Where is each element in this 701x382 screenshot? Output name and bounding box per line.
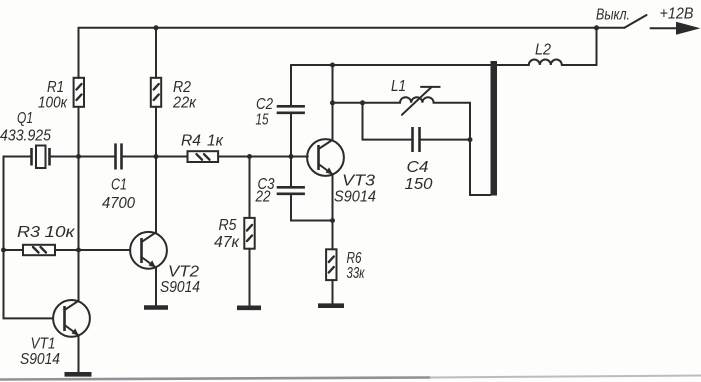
wire: R2 top lead (155, 28, 157, 78)
junction: top rail / switch node (594, 25, 599, 30)
wire: C3 top lead (290, 157, 292, 188)
resistor R2 (151, 78, 161, 107)
svg-text:4700: 4700 (102, 195, 135, 212)
junction: signal line / R5 (247, 154, 252, 159)
resistor R6 (326, 249, 336, 280)
junction: upper rail / antenna top (492, 63, 497, 68)
wire: VT1 emitter lead (78, 336, 80, 373)
wire: left vertical to VT1 base (4, 250, 54, 318)
junction: collector / upper rail (330, 63, 335, 68)
resistor R5 (244, 218, 254, 249)
wire: +12V top supply rail (79, 27, 597, 29)
wire: R2 bottom lead (155, 107, 157, 157)
junction: left vertical / R3 line (1, 248, 6, 253)
svg-text:C2: C2 (256, 96, 273, 113)
wire: R5 bottom lead (249, 249, 251, 306)
wire: C2 top lead from upper rail (290, 65, 292, 106)
junction: tank left top (360, 100, 365, 105)
ground VT1 (65, 372, 92, 377)
junction: tank right / C4 (468, 137, 473, 142)
junction: R3 line / vertical (76, 248, 81, 253)
svg-text:C4: C4 (407, 159, 429, 176)
svg-text:100к: 100к (38, 95, 68, 112)
transistor VT3 (307, 139, 344, 176)
svg-text:47к: 47к (214, 234, 240, 251)
inductor L2 (529, 60, 562, 66)
wire: VT2 emitter lead (155, 268, 157, 306)
svg-text:150: 150 (405, 176, 433, 193)
resistor R3 (23, 245, 55, 255)
svg-text:L2: L2 (535, 42, 551, 59)
wire: R6 bottom lead (332, 280, 334, 304)
svg-text:R5: R5 (219, 217, 237, 234)
transistor VT1 (53, 300, 90, 337)
wire: C4 right lead (420, 139, 471, 141)
wire: tank bottom link to antenna (470, 194, 491, 196)
svg-text:Q1: Q1 (17, 110, 33, 127)
svg-text:VT2: VT2 (168, 264, 199, 281)
inductor L1 (363, 87, 471, 115)
svg-text:S9014: S9014 (334, 189, 376, 206)
wire: tank right vertical (469, 103, 471, 195)
wire: VT1 collector lead (78, 250, 80, 301)
svg-text:C1: C1 (111, 177, 127, 194)
svg-text:Выкл.: Выкл. (596, 6, 630, 23)
svg-text:22: 22 (255, 189, 271, 206)
svg-text:L1: L1 (391, 78, 406, 95)
wire: upper rail right segment after L2 (562, 64, 597, 66)
ground VT2 (144, 305, 168, 310)
wire: R1 top lead (78, 28, 80, 78)
photo bottom edge (0, 378, 430, 380)
wire: tank left vertical (362, 103, 364, 140)
crystal Q1 (32, 146, 50, 169)
resistor R4 (188, 151, 219, 162)
svg-text:R4: R4 (181, 133, 201, 150)
ground R5 (237, 305, 261, 310)
wire: R3 line left lead (4, 249, 24, 251)
svg-text:VT1: VT1 (31, 336, 56, 353)
wire: vertical R1 branch to R3 line (78, 157, 80, 251)
junction: signal line / R2 (154, 154, 159, 159)
svg-text:433.925: 433.925 (0, 128, 51, 145)
+12V output arrow (651, 22, 701, 35)
svg-text:15: 15 (256, 112, 269, 129)
svg-text:1к: 1к (207, 133, 224, 150)
wire: crystal left lead (4, 157, 32, 251)
junction: signal line / C2 C3 (289, 154, 294, 159)
svg-text:R1: R1 (47, 79, 64, 96)
svg-text:+12В: +12В (660, 6, 694, 23)
wire: upper rail left segment (291, 64, 529, 66)
capacitor C4 (413, 127, 420, 152)
transistor VT2 (130, 232, 167, 269)
switch Выкл (597, 15, 647, 28)
svg-text:10к: 10к (45, 224, 77, 241)
wire: R4 to VT3 base (218, 156, 308, 158)
junction: top rail / R2 branch (154, 25, 159, 30)
antenna bar (491, 61, 498, 196)
wire: R1 bottom lead (78, 107, 80, 157)
wire: R5 top lead (249, 157, 251, 219)
svg-text:R3: R3 (17, 224, 40, 241)
wire: VT2 collector lead (155, 157, 157, 234)
svg-text:VT3: VT3 (342, 173, 375, 190)
svg-text:S9014: S9014 (160, 279, 200, 296)
wire: tank top link (333, 102, 363, 104)
capacitor C2 (277, 106, 305, 113)
wire: C2 bottom lead (290, 113, 292, 157)
wire: C3 bottom route to emitter (291, 194, 333, 221)
svg-text:R2: R2 (173, 79, 191, 96)
svg-text:33к: 33к (347, 265, 366, 282)
wire: C4 left lead (363, 139, 413, 141)
wire: C1 to R4 (122, 156, 188, 158)
wire: VT3 emitter lead down (332, 174, 334, 249)
wire: VT3 collector lead up (332, 65, 334, 140)
wire: R3 to VT2 base (55, 249, 130, 251)
wire: riser to switch node (596, 28, 598, 65)
capacitor C1 (116, 143, 122, 169)
wire: crystal right lead to C1 (50, 156, 116, 158)
svg-text:S9014: S9014 (20, 351, 60, 368)
junction: collector / tank link (330, 100, 335, 105)
capacitor C3 (277, 187, 305, 194)
svg-text:22к: 22к (172, 95, 197, 112)
junction: emitter / C3 (330, 218, 335, 223)
resistor R1 (74, 78, 84, 107)
junction: crystal line / R1 branch (76, 154, 81, 159)
ground R6 (318, 303, 344, 308)
